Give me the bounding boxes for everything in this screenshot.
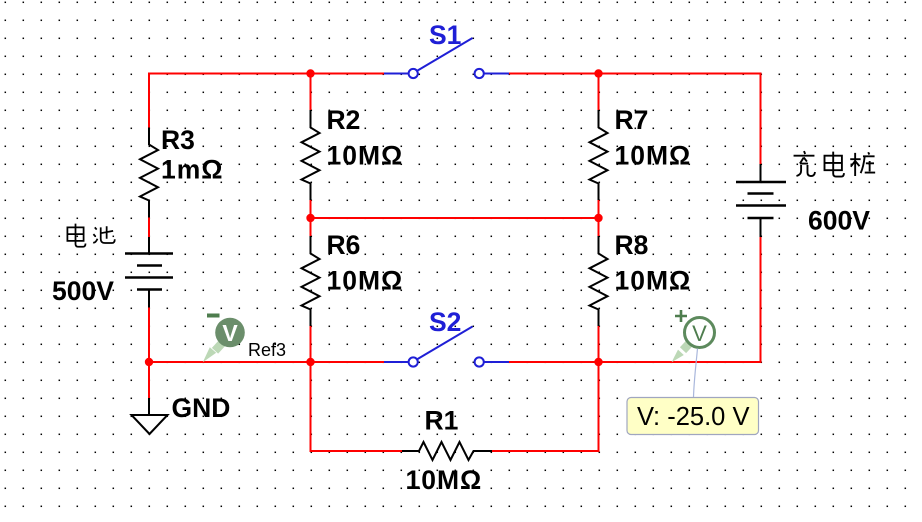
node bottom-far-left (149,362) — [145, 358, 153, 366]
wire bottom-left horizontal (149,362)-(384,362) — [149, 361, 384, 363]
wire R1 right drop (598.5,362)-(598.5,451)-(492,451) — [492, 362, 599, 451]
svg-text:10MΩ: 10MΩ — [327, 141, 404, 171]
svg-text:R1: R1 — [425, 406, 459, 436]
node top-left (310.5,73.5) — [306, 69, 314, 77]
svg-text:GND: GND — [172, 393, 231, 423]
svg-text:10MΩ: 10MΩ — [615, 141, 692, 171]
resistor R2 — [302, 110, 320, 200]
wire R8 bottom stub — [598, 326, 600, 362]
svg-text:600V: 600V — [808, 206, 870, 236]
probe V (plus, right) — [672, 310, 715, 362]
node top-right (598.5,73.5) — [594, 69, 602, 77]
annotation box V: -25.0 V — [627, 398, 759, 435]
svg-text:10MΩ: 10MΩ — [327, 266, 404, 296]
wire R3 to battery (149,217.5)-(149,237) — [148, 218, 150, 238]
node bottom-right (598.5,362) — [594, 358, 602, 366]
label 电池 (battery, hand-drawn glyphs) — [67, 224, 114, 247]
battery V2 (600V charging pile) — [736, 164, 786, 237]
node mid-right (598.5,218) — [594, 214, 602, 222]
battery V1 (500V) — [125, 237, 173, 308]
svg-text:S1: S1 — [429, 20, 461, 50]
svg-text:R3: R3 — [161, 125, 195, 155]
svg-text:10MΩ: 10MΩ — [615, 266, 692, 296]
wire R8 top stub — [598, 218, 600, 236]
wire top-left horizontal (149,73.5)-(384,73.5) — [149, 73, 384, 75]
switch S2 — [384, 327, 509, 367]
wire R2 bottom stub — [310, 200, 312, 218]
wire R2 top stub — [310, 74, 312, 111]
svg-text:R6: R6 — [327, 230, 361, 260]
node mid-left (310.5,218) — [306, 214, 314, 222]
node bottom-left (310.5,362) — [306, 358, 314, 366]
svg-text:S2: S2 — [429, 307, 461, 337]
svg-text:V: V — [222, 320, 238, 346]
wire battery V1 to bottom node (149,307.5)-(149,362) — [148, 308, 150, 363]
svg-text:10MΩ: 10MΩ — [406, 465, 483, 495]
svg-text:V: V — [692, 321, 707, 346]
resistor R1 — [402, 442, 492, 460]
wire R7 top stub — [598, 74, 600, 111]
ground GND — [132, 398, 168, 434]
svg-text:R7: R7 — [615, 105, 649, 135]
svg-text:500V: 500V — [52, 276, 114, 306]
wire R6 bottom stub — [310, 326, 312, 362]
resistor R3 — [140, 128, 158, 218]
probe Ref3 (voltage probe, minus) — [203, 314, 245, 363]
wire GND stub (149,362)-(149,398) — [148, 362, 150, 398]
wire left rail top (149,73.5)-(149,127.5) — [148, 73, 150, 128]
annotation leader line — [694, 349, 698, 398]
switch S1 — [384, 38, 509, 78]
wire R7 bottom stub — [598, 200, 600, 218]
wire R1 left drop (310.5,362)-(310.5,451)-(402,451) — [311, 362, 403, 451]
svg-text:Ref3: Ref3 — [248, 340, 286, 360]
svg-text:V: -25.0 V: V: -25.0 V — [637, 403, 749, 431]
wire middle horizontal (310.5,218)-(598.5,218) — [311, 217, 599, 219]
wire R6 top stub — [310, 218, 312, 236]
resistor R8 — [590, 236, 608, 326]
svg-text:R2: R2 — [327, 105, 361, 135]
wire right rail upper (760.5,73.5)-(760.5,164) — [760, 73, 762, 165]
label 充电桩 (charging pile, hand-drawn glyphs) — [794, 151, 876, 177]
wire top-right horizontal (509,73.5)-(760.5,73.5) — [509, 73, 762, 75]
wire bottom-right horizontal (509,362)-(760.5,362) — [509, 361, 761, 363]
wire right rail lower (760.5,237)-(760.5,362) — [760, 237, 762, 363]
resistor R7 — [590, 110, 608, 200]
svg-text:R8: R8 — [615, 230, 649, 260]
resistor R6 — [302, 236, 320, 326]
svg-text:1mΩ: 1mΩ — [161, 155, 224, 185]
